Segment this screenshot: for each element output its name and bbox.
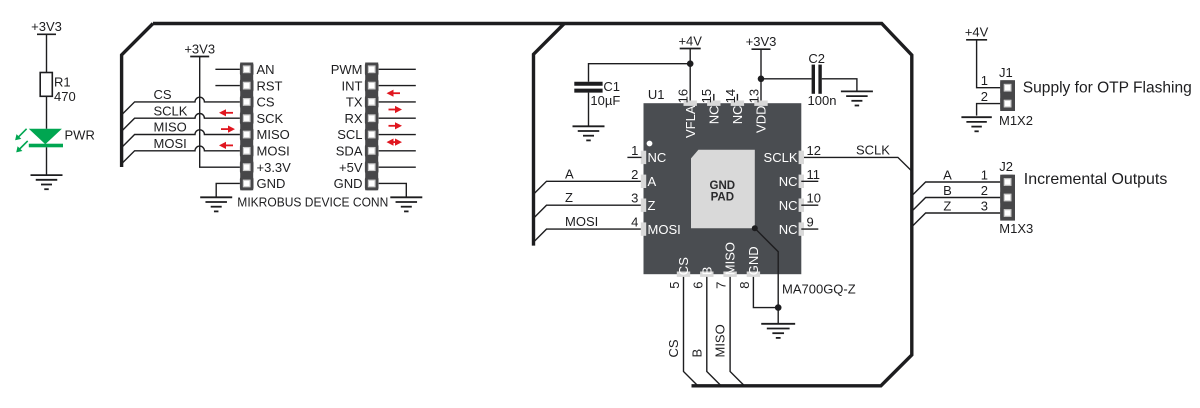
resistor R1 470 <box>40 73 76 105</box>
U1 pin 12 number <box>807 143 821 158</box>
svg-text:16: 16 <box>676 89 691 103</box>
svg-text:14: 14 <box>723 89 738 103</box>
op-amp U1 body (MA700GQ-Z QFN) <box>641 101 804 277</box>
label U1 <box>648 87 665 102</box>
svg-text:MISO: MISO <box>257 127 290 142</box>
U1 pin 13 number <box>746 89 761 103</box>
wire to C2 <box>761 78 812 80</box>
LED PWR (green) <box>15 128 95 153</box>
svg-text:MISO: MISO <box>154 120 187 135</box>
svg-text:3: 3 <box>981 198 988 213</box>
svg-text:NC: NC <box>779 222 798 237</box>
svg-text:PWM: PWM <box>331 62 363 77</box>
svg-text:MOSI: MOSI <box>257 144 290 159</box>
ground (U1) <box>761 324 795 338</box>
svg-text:SDA: SDA <box>336 144 363 159</box>
bus (left, mikrobus) <box>122 24 153 168</box>
svg-text:VDD: VDD <box>754 106 769 133</box>
ground (right header) <box>390 197 422 211</box>
arrow (signal direction) <box>219 142 233 149</box>
svg-text:10: 10 <box>807 191 821 206</box>
wire stub (right header) <box>379 101 416 103</box>
svg-text:12: 12 <box>807 143 821 158</box>
U1 pin 1 stub + number <box>627 143 641 158</box>
wire SCLK (mikrobus) <box>122 103 240 131</box>
svg-text:SCLK: SCLK <box>856 143 890 158</box>
U1 pin 8 number <box>737 282 752 289</box>
svg-text:SCLK: SCLK <box>764 150 798 165</box>
svg-text:1: 1 <box>981 167 988 182</box>
svg-text:SCLK: SCLK <box>154 103 188 118</box>
power +3V3 (LED branch) <box>31 19 62 34</box>
ground (J1) <box>961 117 991 131</box>
svg-text:CS: CS <box>676 257 691 275</box>
wire stub (right header) <box>379 150 416 152</box>
U1 pin names (left) <box>648 150 681 237</box>
power +4V (J1) <box>965 25 989 40</box>
wire stub (right header) <box>379 117 416 119</box>
wire stub (right header) <box>379 166 416 168</box>
svg-text:J2: J2 <box>999 159 1013 174</box>
U1 pin 9 stub + number <box>801 215 818 230</box>
wire A (bus to J2) <box>912 167 1000 196</box>
svg-text:MISO: MISO <box>713 324 728 357</box>
svg-text:2: 2 <box>631 167 638 182</box>
capacitor C2 100n <box>808 51 837 108</box>
svg-text:NC: NC <box>730 106 745 125</box>
svg-text:7: 7 <box>714 282 729 289</box>
svg-text:VFLA: VFLA <box>683 105 698 138</box>
wire +3V3 to pin 13 <box>760 49 762 100</box>
svg-text:C2: C2 <box>808 51 825 66</box>
U1 pin 14 number <box>723 89 738 103</box>
svg-text:AN: AN <box>257 62 275 77</box>
wire CS (U1 pin to bus) <box>666 277 698 386</box>
arrow (signal direction) <box>219 109 233 116</box>
wire SCLK (U1 to bus) <box>804 143 912 171</box>
svg-text:A: A <box>648 174 657 189</box>
svg-text:+3V3: +3V3 <box>184 41 215 56</box>
svg-text:MA700GQ-Z: MA700GQ-Z <box>782 281 856 296</box>
svg-text:+5V: +5V <box>339 160 363 175</box>
svg-text:RST: RST <box>257 78 283 93</box>
wire C2 to ground <box>822 79 857 92</box>
svg-text:SCL: SCL <box>337 127 362 142</box>
wire J1 pin 2 to ground <box>977 89 1001 116</box>
wire GND PAD to ground <box>755 228 778 307</box>
U1 pin 16 number <box>676 89 691 103</box>
wire MISO (mikrobus) <box>122 120 240 148</box>
svg-text:CS: CS <box>154 87 172 102</box>
label Incremental Outputs <box>1024 171 1168 188</box>
power +4V (U1) <box>678 33 702 48</box>
wire AN stub <box>215 68 240 70</box>
board outline bus (top + right + bottom) <box>153 24 912 386</box>
ground (C2) <box>841 91 873 105</box>
svg-text:PAD: PAD <box>711 191 734 203</box>
svg-text:5: 5 <box>667 282 682 289</box>
svg-text:U1: U1 <box>648 87 665 102</box>
connector J2 M1X3 <box>999 159 1033 236</box>
svg-text:CS: CS <box>666 339 681 357</box>
ground (left header) <box>200 197 232 211</box>
ground (LED) <box>31 175 63 189</box>
svg-text:B: B <box>943 183 952 198</box>
svg-text:SCK: SCK <box>257 111 284 126</box>
svg-text:C1: C1 <box>603 79 620 94</box>
svg-text:470: 470 <box>54 89 76 104</box>
svg-text:B: B <box>689 349 704 358</box>
svg-text:1: 1 <box>631 143 638 158</box>
U1 pin number 3 <box>631 191 638 206</box>
svg-text:Incremental Outputs: Incremental Outputs <box>1024 171 1168 188</box>
label Supply for OTP Flashing <box>1023 79 1192 96</box>
arrow (signal direction) <box>221 126 235 133</box>
U1 pin 6 number <box>690 282 705 289</box>
U1 pin 7 number <box>714 282 729 289</box>
arrow (signal direction) <box>387 90 401 97</box>
svg-text:15: 15 <box>699 89 714 103</box>
wire RST stub <box>215 85 240 87</box>
arrow (signal direction) <box>387 139 403 146</box>
svg-text:NC: NC <box>648 150 667 165</box>
wire B (bus to J2) <box>912 183 1000 212</box>
U1 pin 10 stub + number <box>801 191 821 206</box>
svg-text:MIKROBUS DEVICE CONN: MIKROBUS DEVICE CONN <box>237 194 388 209</box>
wire <box>46 147 48 175</box>
svg-text:13: 13 <box>746 89 761 103</box>
wire stub (right header) <box>379 68 416 70</box>
wire <box>46 96 48 129</box>
arrow (signal direction) <box>389 106 403 113</box>
wire B (U1 pin to bus) <box>689 277 721 386</box>
wire to C1 <box>589 64 691 82</box>
svg-text:PWR: PWR <box>65 128 95 143</box>
svg-text:+3V3: +3V3 <box>31 19 62 34</box>
svg-text:NC: NC <box>779 198 798 213</box>
svg-text:R1: R1 <box>54 75 71 90</box>
svg-text:11: 11 <box>807 167 821 182</box>
svg-text:MISO: MISO <box>723 242 738 275</box>
svg-text:100n: 100n <box>808 93 837 108</box>
ground (C1) <box>573 126 605 140</box>
wire C1 to ground <box>588 93 590 127</box>
wire <box>46 34 48 72</box>
svg-text:NC: NC <box>707 106 722 125</box>
wire MISO (U1 pin to bus) <box>713 277 745 386</box>
wire MOSI (bus to U1) <box>534 214 641 242</box>
svg-text:3: 3 <box>631 191 638 206</box>
wire MOSI (mikrobus) <box>122 136 240 164</box>
U1 pin 11 stub + number <box>801 167 820 182</box>
svg-text:+3.3V: +3.3V <box>257 160 292 175</box>
svg-text:J1: J1 <box>999 65 1013 80</box>
svg-text:Z: Z <box>565 190 573 205</box>
svg-text:A: A <box>565 166 574 181</box>
wire stub (right header) <box>379 134 416 136</box>
capacitor C1 10µF <box>574 79 620 108</box>
svg-text:NC: NC <box>779 174 798 189</box>
U1 pin 15 number <box>699 89 714 103</box>
svg-text:CS: CS <box>257 95 275 110</box>
wire GND (right header) to ground <box>379 183 407 196</box>
svg-text:GND: GND <box>710 180 736 192</box>
svg-text:MOSI: MOSI <box>154 136 187 151</box>
svg-text:B: B <box>699 267 714 276</box>
U1 pin names (bottom, rotated) <box>676 242 761 275</box>
wire A (bus to U1) <box>534 166 641 194</box>
svg-text:10µF: 10µF <box>590 93 620 108</box>
svg-text:+3V3: +3V3 <box>746 34 777 49</box>
node (pad dot) <box>752 225 758 231</box>
wire +3V3 to pin +3.3V <box>200 57 240 168</box>
svg-text:Supply for OTP Flashing: Supply for OTP Flashing <box>1023 79 1192 96</box>
bus (middle, chip left) <box>534 24 565 246</box>
svg-text:8: 8 <box>737 282 752 289</box>
wire GND (left header) to ground <box>216 183 240 196</box>
wire +4V to J1 pin 1 <box>977 40 1001 88</box>
svg-text:RX: RX <box>344 111 362 126</box>
svg-text:GND: GND <box>257 176 286 191</box>
node (gnd junction) <box>775 304 782 311</box>
U1 pin number 2 <box>631 167 638 182</box>
U1 pin 5 number <box>667 282 682 289</box>
svg-text:M1X2: M1X2 <box>999 113 1033 128</box>
svg-text:TX: TX <box>346 95 363 110</box>
svg-text:MOSI: MOSI <box>648 222 681 237</box>
power +3V3 (VDD) <box>746 34 777 49</box>
U1 pin names (top, rotated) <box>683 105 769 138</box>
svg-text:2: 2 <box>981 183 988 198</box>
node (junction VDD/C2) <box>758 76 765 83</box>
svg-text:A: A <box>943 167 952 182</box>
wire GND (U1 pin 8) <box>753 277 778 308</box>
label MA700GQ-Z <box>782 281 856 296</box>
svg-text:2: 2 <box>981 89 988 104</box>
connector MIKROBUS DEVICE CONN right column <box>331 62 379 191</box>
svg-text:GND: GND <box>334 176 363 191</box>
node (junction +4V/C1) <box>687 60 694 67</box>
wire Z (bus to J2) <box>912 198 1000 227</box>
svg-text:4: 4 <box>631 215 638 230</box>
svg-text:9: 9 <box>807 215 814 230</box>
svg-text:INT: INT <box>342 78 363 93</box>
wire +4V to pin 16 <box>689 49 691 101</box>
svg-text:GND: GND <box>746 246 761 275</box>
svg-text:Z: Z <box>648 198 656 213</box>
GND PAD (exposed pad) <box>691 150 755 229</box>
U1 pin number 4 <box>631 215 638 230</box>
power +3V3 (header) <box>184 41 215 56</box>
svg-text:1: 1 <box>981 73 988 88</box>
svg-text:M1X3: M1X3 <box>999 221 1033 236</box>
connector MIKROBUS DEVICE CONN left column <box>240 62 291 191</box>
U1 pin names (right) <box>764 150 798 237</box>
label MIKROBUS DEVICE CONN <box>237 194 388 209</box>
svg-text:Z: Z <box>943 198 951 213</box>
connector J1 M1X2 <box>999 65 1033 128</box>
wire CS (mikrobus) <box>122 87 240 115</box>
arrow (signal direction) <box>389 122 403 129</box>
wire stub (right header) <box>379 85 416 87</box>
svg-text:+4V: +4V <box>678 33 702 48</box>
svg-text:+4V: +4V <box>965 25 989 40</box>
wire Z (bus to U1) <box>534 190 641 218</box>
svg-text:MOSI: MOSI <box>565 214 598 229</box>
wire to ground <box>777 308 779 324</box>
svg-text:6: 6 <box>690 282 705 289</box>
